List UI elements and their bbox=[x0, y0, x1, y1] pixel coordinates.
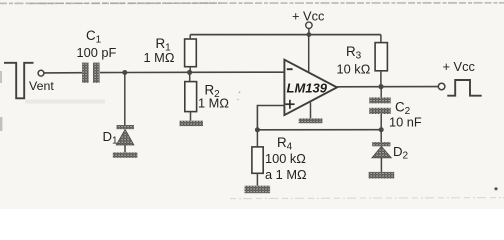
capacitor C1 bbox=[82, 63, 100, 83]
diode D2 bbox=[372, 142, 391, 158]
node A junction (C1/D1) bbox=[122, 70, 127, 75]
wire rail down to R3 bbox=[380, 35, 382, 43]
node junction (Vcc rail) bbox=[307, 32, 312, 37]
input pulse waveform bbox=[4, 63, 34, 99]
resistor R1 bbox=[185, 39, 197, 67]
node E junction (C2/D2) bbox=[379, 127, 384, 132]
node C junction (R4 / + input) bbox=[255, 127, 260, 132]
resistor R4 bbox=[252, 130, 263, 186]
resistor R2 bbox=[185, 82, 197, 112]
wire R1 bottom to node B bbox=[189, 67, 191, 73]
wire op-amp output to terminal bbox=[337, 86, 438, 88]
wire R1 top to +Vcc rail bbox=[189, 35, 191, 39]
ground (below R2) bbox=[180, 121, 204, 126]
resistor R3 bbox=[375, 43, 387, 71]
wire node C to node D bbox=[257, 129, 381, 131]
ground (below op-amp) bbox=[299, 118, 323, 123]
wire R3 bottom to output node bbox=[380, 71, 382, 87]
decorative top rule (unlabeled) bbox=[0, 2, 504, 5]
ground (below R4) bbox=[245, 186, 271, 194]
node D junction (output/R3/C2) bbox=[378, 84, 383, 89]
wire node A to node B bbox=[125, 71, 190, 73]
wire input to C1 bbox=[44, 72, 82, 74]
wire D2 to ground bbox=[380, 158, 382, 172]
wire +Vcc rail bbox=[190, 34, 381, 36]
wire R2 bottom to ground bbox=[190, 112, 192, 121]
decorative scan smudges (unlabeled) bbox=[0, 71, 2, 83]
wire V- pin to ground bbox=[310, 103, 312, 119]
power +Vcc (top) bbox=[292, 9, 325, 35]
wire node B to op-amp inverting input bbox=[190, 71, 285, 73]
output terminal bbox=[438, 83, 445, 90]
ground (below D1) bbox=[113, 152, 138, 157]
node B junction (R1/R2) bbox=[187, 70, 192, 75]
output pulse waveform bbox=[447, 80, 481, 96]
input terminal bbox=[38, 70, 44, 76]
capacitor C2 bbox=[369, 87, 390, 130]
wire C1 to node A bbox=[100, 72, 125, 74]
wire V+ supply pin from rail bbox=[308, 35, 310, 73]
wire D1 to ground bbox=[124, 145, 126, 152]
wire node A down to D1 bbox=[124, 73, 126, 126]
wire node B to R2 top bbox=[189, 72, 191, 81]
ground (below D2) bbox=[369, 172, 395, 179]
wire node E to D2 bbox=[380, 130, 382, 142]
wire op-amp + input to node C bbox=[257, 106, 284, 130]
op-amp U1 LM139 bbox=[284, 60, 337, 115]
diode D1 bbox=[116, 125, 134, 145]
